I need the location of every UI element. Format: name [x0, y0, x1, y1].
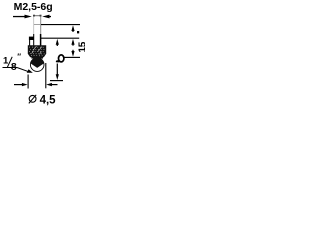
outer dim arrows at x=73: [71, 25, 74, 57]
knurled cap: [28, 45, 46, 57]
extension line B (collar top): [41, 37, 79, 39]
svg-text:″: ″: [17, 53, 21, 62]
svg-text:4,5: 4,5: [40, 94, 57, 106]
speck mark near dim line: [77, 31, 79, 33]
extension line A (thread end): [41, 24, 80, 26]
extension line D (tip plane): [50, 80, 63, 82]
thread runout tick: [34, 24, 40, 26]
threaded stud body: [33, 15, 42, 46]
leader arrow left (points right at thread): [13, 15, 32, 19]
svg-text:M2,5-6g: M2,5-6g: [14, 1, 53, 13]
leader arrow right (points left at thread): [42, 15, 51, 19]
svg-text:5: 5: [78, 41, 86, 47]
collar step (left): [29, 37, 34, 46]
inner dim arrows at x=57.3: [56, 39, 59, 80]
diameter symbol: [29, 95, 36, 104]
dim line right + arrow: [50, 84, 58, 85]
svg-text:8: 8: [11, 61, 17, 73]
extension line C: [65, 56, 81, 58]
1/8 inch label: [3, 53, 21, 73]
dim line left + arrow: [14, 84, 24, 85]
background: [0, 0, 85, 110]
ext line right: [45, 63, 47, 88]
svg-text:1: 1: [78, 47, 86, 53]
contact ball: [30, 57, 44, 72]
dia 4,5 dimension: [14, 63, 58, 106]
ext line left: [27, 75, 29, 89]
1/8 leader shelf + diagonal arrow to ball: [3, 68, 33, 73]
dim text 6 (rotated, drawn as shapes): [56, 55, 64, 63]
